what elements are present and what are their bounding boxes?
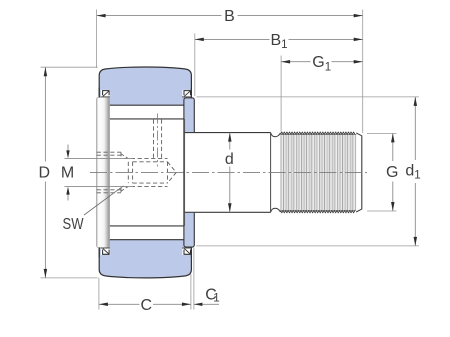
threaded hole M minor dia xyxy=(133,161,168,163)
hex socket SW outline xyxy=(97,151,121,153)
outer ring bottom section xyxy=(99,240,191,278)
dimension d1 line xyxy=(414,97,416,160)
SW leader line xyxy=(84,186,124,215)
dimension C extension right xyxy=(190,274,192,310)
dimension B1 extension line xyxy=(194,34,196,97)
stud raceway line top xyxy=(109,118,184,120)
thread crest top xyxy=(281,132,355,134)
lubrication hole centerline xyxy=(157,114,159,167)
dimension C extension left xyxy=(98,278,100,310)
dimension G extension bottom xyxy=(367,210,397,212)
thread crest bottom xyxy=(281,211,355,213)
thread root bottom xyxy=(281,209,357,211)
dimension M arrows xyxy=(67,145,69,152)
svg-text:M: M xyxy=(61,165,74,182)
dimension B extension line left xyxy=(96,10,98,69)
dimension D line xyxy=(44,67,46,161)
lubrication hole walls xyxy=(153,120,155,159)
svg-text:B: B xyxy=(224,8,235,25)
dimension B line xyxy=(97,15,222,17)
svg-text:1: 1 xyxy=(213,293,219,305)
stud body xyxy=(185,132,362,213)
dimension G1 extension line xyxy=(280,56,282,132)
svg-text:SW: SW xyxy=(63,216,85,233)
ring face segments xyxy=(98,88,100,98)
dimension d1 extension top xyxy=(197,96,420,98)
thread hole end xyxy=(167,162,169,183)
right flange washer xyxy=(184,98,194,247)
stud raceway line bottom xyxy=(109,225,184,227)
snap ring groove bottom-right xyxy=(182,248,191,255)
stud surface bottom xyxy=(185,211,271,213)
dimension G1 line xyxy=(281,61,310,63)
stud surface top xyxy=(185,132,271,134)
dimension C1 extension right xyxy=(193,248,195,310)
cylinder end line xyxy=(270,133,272,213)
threaded hole M major dia xyxy=(124,157,168,159)
stud end face xyxy=(361,136,363,210)
svg-text:C: C xyxy=(141,297,153,314)
relief groove bottom xyxy=(271,208,281,212)
drill cone xyxy=(168,162,177,183)
dimension D extension bottom xyxy=(41,277,98,279)
dimension C1 line xyxy=(194,303,219,305)
snap ring groove bottom-left xyxy=(101,248,110,255)
dimension B1 line xyxy=(195,38,270,40)
stud shoulder face xyxy=(184,119,186,226)
dimension M extension lines xyxy=(65,157,134,159)
main center axis xyxy=(90,171,367,173)
dimension G line xyxy=(392,133,394,161)
dimension d line xyxy=(229,133,231,150)
dimension D extension top xyxy=(41,66,98,68)
svg-text:G: G xyxy=(386,164,398,181)
dimension d1 extension bottom xyxy=(197,245,420,247)
thread start rings xyxy=(127,162,129,183)
socket cone chamfer xyxy=(121,154,128,159)
svg-text:D: D xyxy=(39,165,51,182)
hex socket flats xyxy=(97,154,121,156)
thread root top xyxy=(281,134,357,136)
end chamfer top xyxy=(356,133,362,136)
snap ring groove top-left xyxy=(101,90,110,97)
relief groove top xyxy=(271,133,281,137)
dimension G extension top xyxy=(367,132,397,134)
dimension C line xyxy=(99,303,140,305)
svg-text:d: d xyxy=(225,151,234,168)
end chamfer bottom xyxy=(356,209,362,212)
outer ring top section xyxy=(99,67,191,105)
dimension B extension line right (stud end) xyxy=(362,10,364,134)
snap ring groove top-right xyxy=(182,90,191,97)
